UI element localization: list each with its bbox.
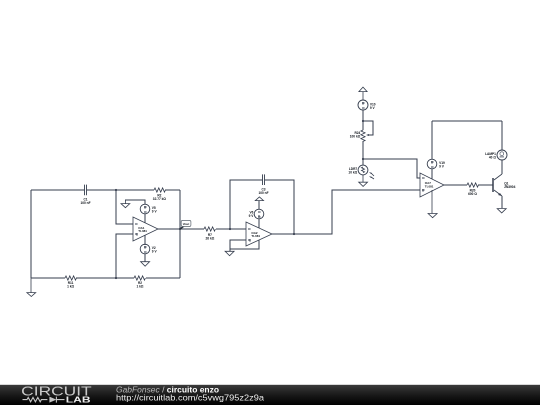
wire <box>31 189 180 191</box>
op-amp OA1 <box>133 217 158 241</box>
ground <box>121 200 130 208</box>
wire <box>179 190 181 278</box>
wire <box>272 190 420 234</box>
ground <box>359 175 368 186</box>
potentiometer R24 <box>350 121 373 141</box>
wire <box>30 190 32 278</box>
photoresistor LDR7 <box>348 165 374 179</box>
svg-text:9 V: 9 V <box>249 214 255 218</box>
svg-text:9 V: 9 V <box>439 165 445 169</box>
node junction <box>362 158 364 160</box>
svg-text:9 V: 9 V <box>152 250 158 254</box>
wire <box>116 234 133 278</box>
resistor R7 <box>204 227 215 241</box>
voltage source V10 <box>358 100 376 130</box>
node Vout flag <box>180 220 191 229</box>
ground <box>428 190 437 218</box>
svg-text:9 V: 9 V <box>152 209 158 213</box>
svg-text:600 Ω: 600 Ω <box>468 192 477 196</box>
resistor R20 <box>467 183 478 196</box>
voltage source V6 <box>249 201 264 228</box>
svg-text:2N3904: 2N3904 <box>504 185 515 189</box>
node junction <box>115 277 117 279</box>
svg-text:100 nF: 100 nF <box>80 201 90 205</box>
svg-text:TL081: TL081 <box>251 234 260 238</box>
resistor R2 1k <box>134 276 145 289</box>
svg-text:LAB: LAB <box>66 395 91 405</box>
node junction <box>179 228 181 230</box>
node junction <box>362 120 364 122</box>
wire <box>363 159 420 178</box>
voltage source V19 <box>427 121 445 179</box>
svg-text:1 kΩ: 1 kΩ <box>67 285 74 289</box>
ground <box>497 209 506 213</box>
resistor R2 32.77k <box>153 188 167 201</box>
lamp LAMP1 <box>485 121 507 174</box>
ground <box>225 251 234 255</box>
voltage source V2 <box>140 235 157 262</box>
op-amp OA7 <box>420 173 444 197</box>
transistor Q1 <box>493 174 516 208</box>
node junction <box>115 189 117 191</box>
svg-text:http://circuitlab.com/c5vwg795: http://circuitlab.com/c5vwg795z2z9a <box>116 393 264 403</box>
wire <box>230 240 246 251</box>
wire feedback <box>230 180 294 234</box>
svg-text:Vout: Vout <box>183 222 189 226</box>
wire <box>432 120 502 122</box>
wire <box>158 228 204 230</box>
wire <box>31 277 180 279</box>
svg-text:TL081: TL081 <box>425 184 434 188</box>
wire <box>362 141 364 165</box>
node junction <box>293 233 295 235</box>
svg-text:100 nF: 100 nF <box>258 191 268 195</box>
supply arrow <box>359 87 367 100</box>
logo resistor-diode squiggle <box>23 397 65 403</box>
svg-text:32.77 kΩ: 32.77 kΩ <box>153 197 167 201</box>
svg-text:40 Ω: 40 Ω <box>489 155 496 159</box>
svg-text:10 kΩ: 10 kΩ <box>348 170 357 174</box>
svg-text:26 kΩ: 26 kΩ <box>206 236 215 240</box>
svg-text:1 kΩ: 1 kΩ <box>137 285 144 289</box>
capacitor C3 <box>258 174 268 195</box>
op-amp OA2 <box>246 222 272 246</box>
node junction <box>229 228 231 230</box>
svg-text:TL081: TL081 <box>138 229 147 233</box>
wire <box>216 228 246 230</box>
ground <box>141 262 150 267</box>
footer bar <box>0 385 540 405</box>
supply arrow <box>255 197 263 201</box>
wire <box>444 184 467 186</box>
svg-text:100 kΩ: 100 kΩ <box>350 134 361 138</box>
resistor R11 <box>65 276 76 289</box>
svg-text:9 V: 9 V <box>370 106 376 110</box>
wire <box>478 184 493 186</box>
ground <box>27 278 36 297</box>
wire <box>116 190 133 224</box>
wire <box>230 240 259 249</box>
capacitor C1 <box>80 185 90 206</box>
voltage source V5 <box>125 200 157 223</box>
